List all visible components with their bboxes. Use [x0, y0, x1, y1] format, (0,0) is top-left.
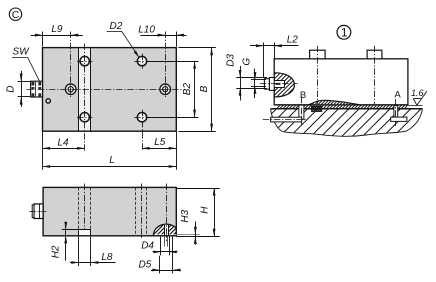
svg-text:B: B — [300, 90, 306, 101]
svg-text:L9: L9 — [51, 24, 63, 35]
lube nipple section (bell) — [247, 68, 326, 98]
svg-text:1: 1 — [341, 26, 348, 40]
surface roughness symbol 1.6 — [411, 88, 427, 105]
svg-text:L8: L8 — [101, 252, 113, 263]
svg-text:G: G — [241, 58, 252, 66]
svg-text:H3: H3 — [180, 209, 191, 222]
svg-text:L5: L5 — [154, 137, 166, 148]
knurled grub screw (top view) — [31, 81, 43, 97]
set screw side view (front view) — [29, 204, 46, 219]
hole bottom-left — [77, 113, 92, 122]
dimension B — [179, 48, 216, 132]
front view hole hidden lines — [136, 184, 147, 240]
svg-text:D2: D2 — [110, 21, 123, 32]
dimension G — [241, 58, 266, 98]
dimension L8 — [70, 237, 116, 266]
small pin hole — [46, 99, 50, 103]
view label 1 (circled) — [337, 25, 351, 39]
countersink dome (section) — [140, 184, 192, 242]
dimension L — [43, 155, 177, 168]
svg-text:B: B — [199, 85, 210, 92]
front view body — [43, 187, 176, 235]
svg-text:L10: L10 — [138, 24, 155, 35]
view label C (circled) — [9, 8, 21, 21]
dowel hole at B — [263, 117, 307, 122]
hole D2 top-right — [134, 54, 149, 69]
counterbored hole left — [65, 32, 76, 98]
clamping screw A — [394, 99, 398, 126]
dimension L10 — [138, 24, 186, 46]
front view slot hidden lines — [79, 184, 91, 233]
dimension L4 — [43, 131, 85, 170]
svg-text:A: A — [394, 90, 401, 101]
dimension H2 — [50, 222, 79, 261]
slot at A — [391, 117, 407, 121]
application body — [274, 59, 408, 105]
hole bottom-right — [134, 110, 149, 152]
front view body outline — [43, 187, 176, 235]
top view plate body — [43, 48, 177, 132]
dimension D2 leader — [107, 21, 140, 58]
nipple tip — [264, 79, 269, 89]
svg-text:L2: L2 — [287, 35, 299, 46]
dimension SW — [12, 46, 39, 81]
clamped workpiece (thin sheet section) — [267, 96, 424, 110]
nipple collar — [269, 78, 274, 91]
mounting screw head left — [310, 46, 326, 104]
dimension B2 — [147, 61, 199, 117]
svg-text:H: H — [199, 206, 210, 214]
top view through-slot — [79, 48, 91, 132]
svg-text:B2: B2 — [182, 83, 193, 96]
dimension L2 — [250, 35, 299, 78]
svg-text:D5: D5 — [139, 259, 152, 270]
svg-text:H2: H2 — [50, 245, 61, 258]
dimension L5 — [142, 131, 177, 170]
hole top-left — [77, 56, 92, 65]
svg-text:L: L — [109, 155, 115, 166]
dimension H3 — [176, 209, 220, 244]
horizontal main centerline — [27, 89, 182, 91]
dimension D3 — [226, 54, 267, 101]
svg-text:D3: D3 — [226, 54, 237, 67]
svg-text:L4: L4 — [57, 137, 69, 148]
base plate (hatched section) — [237, 103, 436, 138]
body bottom edge — [274, 104, 422, 107]
nipple axis — [260, 83, 298, 85]
clamping screw B — [299, 97, 304, 127]
front view bottom notch — [79, 229, 91, 236]
svg-text:C: C — [12, 9, 20, 21]
dimension D5 — [139, 237, 181, 274]
svg-text:SW: SW — [13, 46, 31, 57]
slot centerline — [84, 44, 86, 152]
dimension D — [5, 71, 30, 107]
mounting screw head right — [367, 46, 382, 104]
counterbored hole right — [160, 32, 171, 98]
dimension L9 — [31, 24, 83, 47]
svg-text:1.6: 1.6 — [411, 88, 424, 98]
svg-text:D: D — [5, 85, 16, 92]
top view body outline — [43, 48, 177, 132]
dimension D4 — [141, 237, 177, 256]
svg-text:D4: D4 — [141, 240, 154, 251]
dimension H — [176, 188, 220, 236]
